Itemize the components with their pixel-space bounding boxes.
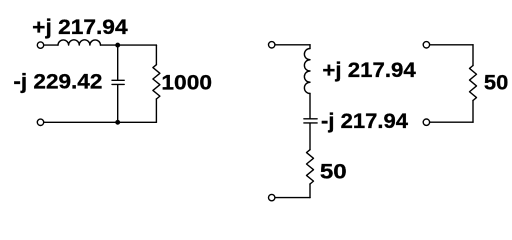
svg-text:50: 50 <box>320 160 347 183</box>
svg-text:50: 50 <box>484 72 508 95</box>
svg-text:+j 217.94: +j 217.94 <box>322 59 416 82</box>
svg-text:-j 217.94: -j 217.94 <box>321 110 408 133</box>
svg-text:-j 229.42: -j 229.42 <box>13 71 102 94</box>
svg-text:1000: 1000 <box>161 72 212 95</box>
svg-text:+j 217.94: +j 217.94 <box>32 16 128 39</box>
